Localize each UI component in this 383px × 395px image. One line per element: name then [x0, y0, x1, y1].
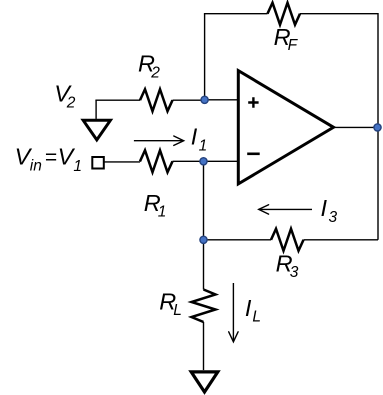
resistor R1: [140, 150, 173, 172]
node B: - input junction: [200, 158, 207, 165]
label R2: [138, 51, 160, 82]
resistor RF: [268, 3, 301, 25]
resistor R3: [271, 229, 304, 251]
resistor RL: [192, 290, 216, 323]
svg-text:I: I: [321, 195, 328, 221]
label R3: [276, 251, 299, 282]
wire from + node up to feedback loop: [204, 14, 206, 100]
svg-text:I: I: [191, 123, 198, 149]
arrow I3: [259, 205, 312, 214]
ground symbol bottom: [191, 372, 218, 392]
label Vin = V1: [15, 144, 82, 175]
svg-text:L: L: [252, 308, 261, 325]
svg-text:3: 3: [290, 264, 299, 281]
wire - node down to bottom junction: [203, 161, 205, 240]
node A: + input junction: [201, 96, 208, 103]
wire - input: [204, 160, 239, 162]
svg-text:F: F: [288, 37, 299, 54]
svg-text:2: 2: [150, 64, 160, 81]
resistor R2: [140, 89, 173, 111]
wire + input: [205, 99, 239, 101]
svg-text:I: I: [245, 295, 252, 321]
wire op-amp output: [334, 126, 379, 128]
wire right vertical lower (output node to bottom loop): [377, 127, 379, 239]
svg-text:1: 1: [73, 158, 82, 175]
wire bottom horizontal right segment: [304, 239, 379, 241]
wire V2 branch horizontal to R2: [95, 99, 140, 101]
svg-text:in: in: [30, 157, 42, 174]
wire bottom junction down to RL: [203, 240, 205, 290]
input terminal square: [92, 157, 104, 169]
op-amp U1: [238, 71, 333, 184]
wire bottom horizontal left segment: [204, 239, 272, 241]
label IL: [245, 295, 261, 326]
label I3: [321, 195, 338, 226]
svg-text:3: 3: [329, 209, 338, 226]
label I1: [191, 123, 207, 154]
wire V2 branch: ground stub vertical: [95, 100, 97, 119]
label V2: [54, 80, 76, 111]
svg-text:1: 1: [199, 137, 208, 154]
wire R1 to - node: [173, 160, 204, 162]
wire right vertical upper (top to output node): [377, 13, 379, 127]
node D: bottom junction: [200, 236, 207, 243]
label RL: [159, 289, 182, 320]
svg-text:2: 2: [66, 94, 76, 111]
arrow I1: [134, 136, 184, 145]
label R1: [144, 190, 167, 221]
svg-text:=: =: [45, 146, 57, 169]
wire top horizontal right segment: [300, 13, 378, 15]
wire R2 to + node: [173, 99, 205, 101]
label RF: [274, 24, 299, 54]
ground symbol under V2: [83, 120, 110, 140]
arrow IL: [229, 283, 238, 342]
wire RL to ground: [203, 322, 205, 370]
node C: output junction: [374, 124, 381, 131]
svg-text:1: 1: [158, 203, 167, 220]
wire top horizontal left segment: [204, 13, 268, 15]
wire terminal to R1: [104, 160, 140, 163]
svg-text:L: L: [173, 302, 182, 319]
